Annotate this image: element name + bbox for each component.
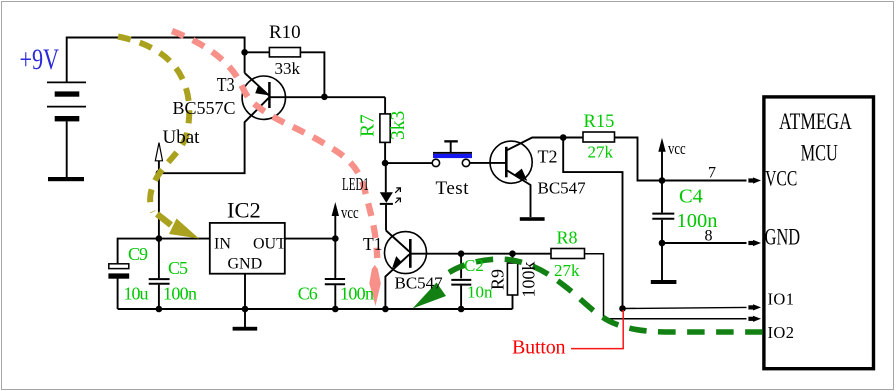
svg-text:vcc: vcc bbox=[341, 204, 359, 222]
svg-text:Test: Test bbox=[436, 178, 470, 199]
svg-text:R15: R15 bbox=[584, 112, 615, 132]
svg-text:LED1: LED1 bbox=[342, 176, 369, 195]
svg-text:C5: C5 bbox=[168, 258, 188, 278]
svg-text:C4: C4 bbox=[679, 186, 703, 208]
svg-text:BC547: BC547 bbox=[538, 179, 587, 198]
svg-text:T2: T2 bbox=[538, 147, 558, 167]
svg-text:100k: 100k bbox=[519, 262, 539, 298]
svg-text:OUT: OUT bbox=[253, 236, 286, 253]
svg-text:Ubat: Ubat bbox=[163, 127, 201, 148]
svg-text:C6: C6 bbox=[298, 283, 318, 303]
svg-text:Button: Button bbox=[512, 337, 566, 359]
svg-text:C2: C2 bbox=[464, 256, 484, 275]
svg-text:100n: 100n bbox=[677, 210, 718, 232]
svg-text:vcc: vcc bbox=[668, 140, 686, 158]
svg-text:33k: 33k bbox=[275, 59, 301, 78]
svg-text:100n: 100n bbox=[163, 283, 197, 303]
svg-text:IN: IN bbox=[214, 236, 231, 253]
svg-text:IC2: IC2 bbox=[227, 198, 261, 223]
svg-text:GND: GND bbox=[765, 225, 800, 250]
svg-text:27k: 27k bbox=[588, 143, 614, 162]
svg-text:10n: 10n bbox=[467, 283, 493, 302]
svg-text:R7: R7 bbox=[358, 114, 379, 137]
svg-text:IO2: IO2 bbox=[768, 323, 795, 342]
svg-text:27k: 27k bbox=[554, 261, 580, 280]
svg-text:R10: R10 bbox=[269, 22, 301, 43]
svg-text:IO1: IO1 bbox=[768, 289, 795, 308]
svg-text:R8: R8 bbox=[557, 228, 578, 248]
svg-text:T3: T3 bbox=[217, 73, 235, 95]
svg-text:ATMEGA: ATMEGA bbox=[779, 110, 852, 135]
svg-text:7: 7 bbox=[708, 165, 716, 182]
svg-text:10u: 10u bbox=[124, 283, 149, 303]
svg-text:T1: T1 bbox=[363, 234, 382, 254]
svg-text:VCC: VCC bbox=[765, 167, 797, 191]
svg-text:BC547: BC547 bbox=[395, 274, 444, 293]
svg-text:+9V: +9V bbox=[19, 42, 59, 76]
svg-text:BC557C: BC557C bbox=[173, 98, 236, 118]
svg-text:GND: GND bbox=[228, 256, 263, 273]
svg-text:100n: 100n bbox=[340, 283, 374, 303]
svg-text:3k3: 3k3 bbox=[388, 111, 409, 140]
svg-text:MCU: MCU bbox=[801, 141, 838, 166]
svg-text:C9: C9 bbox=[128, 244, 148, 264]
